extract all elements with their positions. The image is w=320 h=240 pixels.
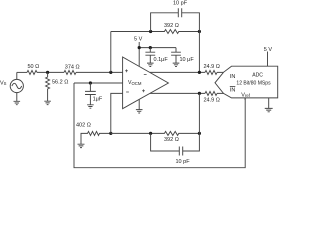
bottom output wire <box>150 92 224 94</box>
svg-text:10 pF: 10 pF <box>173 1 188 7</box>
ground (under 1uF) <box>87 105 94 108</box>
svg-text:392 Ω: 392 Ω <box>164 23 179 29</box>
svg-text:1μF: 1μF <box>93 97 103 103</box>
node VOCM <box>89 81 92 84</box>
resistor 24.9 Ohm (top) <box>205 70 217 74</box>
capacitor 0.1uF <box>145 48 155 64</box>
svg-text:374 Ω: 374 Ω <box>65 64 80 70</box>
capacitor 10 pF (bottom) <box>151 133 200 155</box>
svg-text:24.9 Ω: 24.9 Ω <box>204 98 220 104</box>
svg-text:IN: IN <box>230 74 236 80</box>
ground (402) <box>78 144 85 147</box>
ground (under 56.2) <box>44 101 51 104</box>
node A <box>46 71 49 74</box>
wire VS to R1 <box>17 71 27 73</box>
capacitor 1uF <box>85 83 96 105</box>
node top output <box>198 71 201 74</box>
svg-text:VOCM: VOCM <box>128 80 142 86</box>
VOCM wire <box>74 82 123 84</box>
svg-text:392 Ω: 392 Ω <box>164 137 179 143</box>
marker + (top input) <box>125 69 128 72</box>
resistor 56.2 Ohm (vertical) <box>46 72 50 101</box>
top output wire <box>150 71 224 73</box>
IN overbar <box>230 86 236 88</box>
svg-text:5 V: 5 V <box>264 47 273 53</box>
capacitor 10 pF (top) <box>151 8 200 31</box>
resistor 24.9 Ohm (bottom) <box>205 91 217 95</box>
5V rail to decoupling caps <box>139 47 176 49</box>
ADC ground <box>265 98 273 112</box>
node top 10pF left <box>149 30 152 33</box>
svg-text:56.2 Ω: 56.2 Ω <box>52 80 68 86</box>
svg-text:Vref: Vref <box>241 92 250 98</box>
svg-text:VS: VS <box>0 80 7 86</box>
resistor 50 Ohm <box>27 70 37 74</box>
wire node C up to op-amp minus input <box>111 93 123 133</box>
node bottom 10pF left <box>149 132 152 135</box>
node B <box>109 71 112 74</box>
svg-text:10 μF: 10 μF <box>180 57 195 63</box>
wire R1 to node A <box>37 71 64 73</box>
node bottom output <box>198 92 201 95</box>
marker + (bottom output) <box>142 89 145 92</box>
marker - (top output) <box>144 73 147 75</box>
ground (under VS) <box>14 101 21 104</box>
VOCM/Vref return path <box>74 83 245 168</box>
ground (under 10uF) <box>173 63 180 66</box>
svg-text:10 pF: 10 pF <box>176 159 191 165</box>
capacitor 10 uF <box>171 48 181 64</box>
ground (op-amp) <box>136 110 143 113</box>
resistor 374 Ohm <box>64 70 76 74</box>
wire R2 to node B <box>76 71 123 73</box>
ADC 5V stub <box>267 52 269 67</box>
svg-text:5 V: 5 V <box>134 37 143 43</box>
bottom feedback wire + resistor 392 Ohm <box>111 131 200 135</box>
node top right <box>198 30 201 33</box>
svg-text:ADC: ADC <box>252 73 263 79</box>
node bottom right <box>198 132 201 135</box>
resistor 402 Ohm <box>81 131 111 144</box>
ADC U2 outline <box>215 66 278 98</box>
svg-text:402 Ω: 402 Ω <box>76 123 91 129</box>
marker - (bottom input) <box>126 91 129 93</box>
wire top right down to output <box>198 32 200 73</box>
svg-text:24.9 Ω: 24.9 Ω <box>204 64 220 70</box>
svg-text:IN: IN <box>230 88 236 94</box>
svg-text:12 Bit/80 MSps: 12 Bit/80 MSps <box>236 81 271 87</box>
ADC Vref stub (to return path) <box>244 98 246 100</box>
wire node B up to feedback <box>110 32 112 73</box>
node C bottom <box>109 132 112 135</box>
op-amp pin markers <box>125 69 147 92</box>
op-amp negative supply ground stub <box>138 100 140 110</box>
svg-text:50 Ω: 50 Ω <box>28 64 40 70</box>
op-amp U1 <box>123 57 169 109</box>
svg-text:0.1μF: 0.1μF <box>154 57 169 63</box>
wire bottom output down <box>198 93 200 133</box>
op-amp 5V stub <box>138 42 140 66</box>
source VS <box>10 72 23 101</box>
ground (under 0.1uF) <box>147 63 154 66</box>
top feedback wire + resistor 392 Ohm <box>111 30 200 34</box>
